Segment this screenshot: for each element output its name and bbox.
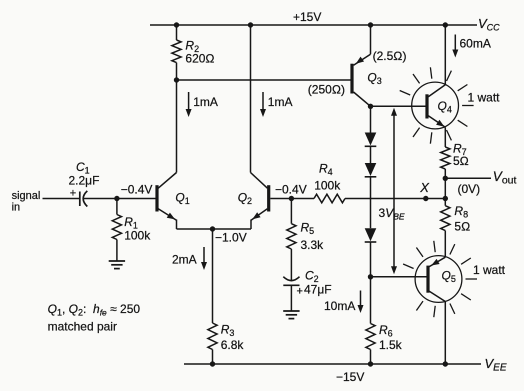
svg-text:(2.5Ω): (2.5Ω) [373, 49, 407, 63]
svg-text:47μF: 47μF [304, 283, 332, 297]
svg-text:10mA: 10mA [324, 299, 355, 313]
svg-text:−1.0V: −1.0V [215, 231, 247, 245]
svg-text:5Ω: 5Ω [454, 220, 470, 234]
svg-text:1.5k: 1.5k [379, 338, 403, 352]
svg-text:signal: signal [12, 190, 41, 202]
svg-text:1mA: 1mA [193, 95, 218, 109]
svg-text:Q1​, Q2​: hfe​ ≈ 250: Q1​, Q2​: hfe​ ≈ 250 [48, 302, 141, 318]
svg-text:1mA: 1mA [268, 95, 293, 109]
svg-text:1 watt: 1 watt [468, 91, 501, 105]
svg-text:6.8k: 6.8k [221, 338, 245, 352]
svg-text:100k: 100k [314, 179, 341, 193]
svg-text:60mA: 60mA [460, 37, 491, 51]
svg-text:620Ω: 620Ω [185, 52, 214, 66]
svg-text:(250Ω): (250Ω) [308, 83, 345, 97]
svg-text:−15V: −15V [336, 370, 364, 384]
svg-text:X: X [419, 180, 430, 195]
svg-text:1 watt: 1 watt [473, 263, 506, 277]
svg-text:−0.4V: −0.4V [121, 183, 153, 197]
svg-text:+: + [70, 187, 76, 199]
svg-text:+: + [297, 286, 303, 298]
svg-text:−0.4V: −0.4V [275, 183, 307, 197]
svg-text:3.3k: 3.3k [301, 238, 325, 252]
svg-text:2mA: 2mA [172, 253, 197, 267]
svg-text:in: in [12, 202, 21, 214]
svg-text:100k: 100k [124, 228, 151, 242]
svg-text:+15V: +15V [293, 10, 321, 24]
svg-text:5Ω: 5Ω [453, 154, 469, 168]
svg-text:matched pair: matched pair [48, 320, 117, 334]
svg-text:(0V): (0V) [458, 182, 481, 196]
svg-text:2.2μF: 2.2μF [69, 174, 100, 188]
